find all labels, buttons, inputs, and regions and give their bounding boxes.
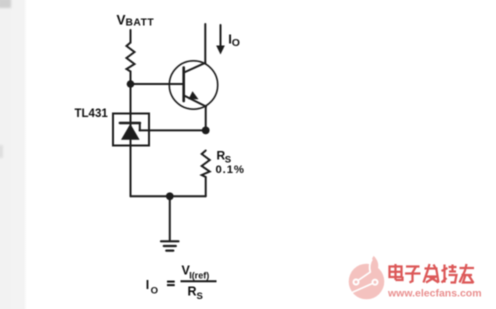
svg-text:BATT: BATT: [126, 18, 155, 29]
svg-text:I: I: [146, 278, 149, 292]
wire collector: [204, 24, 206, 64]
wire from VBATT to resistor: [130, 30, 132, 43]
junction node B: [202, 126, 210, 134]
watermark title DIAN ZI FA SHAO YOU (pseudo CJK glyphs): [390, 264, 475, 283]
junction node GND: [166, 192, 174, 200]
wire left vertical (node A to bottom rail): [130, 84, 132, 196]
resistor RS: [202, 151, 210, 178]
transistor Q1: [169, 61, 217, 109]
shunt regulator U1 TL431: [113, 114, 149, 146]
wire bottom rail: [131, 195, 206, 197]
svg-text:0.1%: 0.1%: [216, 164, 245, 176]
current arrow IO: [216, 25, 225, 55]
wire RS bottom: [205, 177, 207, 196]
ground: [161, 241, 179, 250]
wire base: [131, 83, 184, 85]
wire resistor to node A: [130, 72, 132, 83]
label IO: [228, 32, 240, 49]
junction node A: [127, 80, 135, 88]
resistor (bias): [127, 43, 135, 72]
elecfans logo: [349, 256, 385, 299]
label RS: [217, 149, 232, 166]
svg-text:S: S: [197, 291, 203, 302]
svg-text:O: O: [151, 286, 158, 297]
svg-text:TL431: TL431: [75, 108, 109, 120]
svg-text:R: R: [188, 285, 197, 299]
formula IO = VI(ref)/RS: [146, 264, 217, 303]
wire ground stem: [169, 196, 171, 240]
wire emitter to node B: [205, 106, 207, 128]
svg-text:www.elecfans.com: www.elecfans.com: [387, 288, 482, 300]
net VBATT label: [117, 13, 155, 29]
svg-text:I(ref): I(ref): [189, 271, 209, 281]
svg-text:V: V: [117, 13, 126, 28]
svg-text:O: O: [232, 37, 240, 49]
wire REF (TL431 to node B): [140, 129, 206, 131]
